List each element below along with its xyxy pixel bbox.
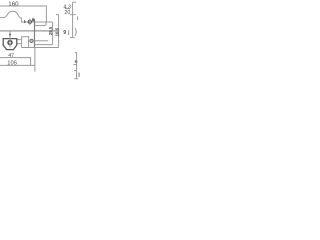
- svg-text:47: 47: [8, 53, 14, 59]
- svg-text:16,5: 16,5: [54, 27, 59, 36]
- svg-text:105: 105: [7, 60, 17, 66]
- svg-text:160: 160: [8, 1, 19, 8]
- svg-text:20: 20: [64, 10, 70, 16]
- svg-text:29,5: 29,5: [48, 26, 53, 35]
- svg-text:9: 9: [63, 30, 66, 36]
